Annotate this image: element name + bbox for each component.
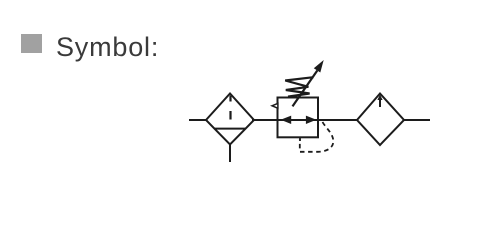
- wire: outlet line: [403, 119, 430, 121]
- filter F1 body (diamond): [206, 94, 254, 145]
- regulator R1 adjustment arrow head: [314, 60, 324, 73]
- regulator R1 vent triangle: [272, 103, 278, 108]
- lubricator L1 drip arrow head: [377, 95, 382, 101]
- title Symbol:: [56, 32, 159, 63]
- regulator R1 flow arrow right: [306, 116, 317, 124]
- regulator R1 pilot stub: [299, 137, 301, 141]
- regulator R1 flow arrow left: [281, 116, 292, 124]
- filter F1 element (dashed vertical): [229, 96, 231, 102]
- wire: inlet line: [189, 119, 206, 121]
- lubricator L1 drip arrow shaft: [379, 98, 381, 108]
- bullet square: [21, 34, 43, 53]
- regulator R1 spring: [285, 77, 313, 96]
- filter F1 bowl chord: [215, 128, 246, 130]
- regulator R1 body (square): [278, 98, 319, 138]
- lubricator L1 body (diamond): [357, 94, 404, 146]
- wire: main line filter to lubricator: [252, 119, 358, 121]
- regulator R1 adjustment arrow shaft: [293, 71, 318, 107]
- filter F1 drain line: [229, 145, 231, 163]
- regulator R1 pilot dashed line: [300, 122, 334, 152]
